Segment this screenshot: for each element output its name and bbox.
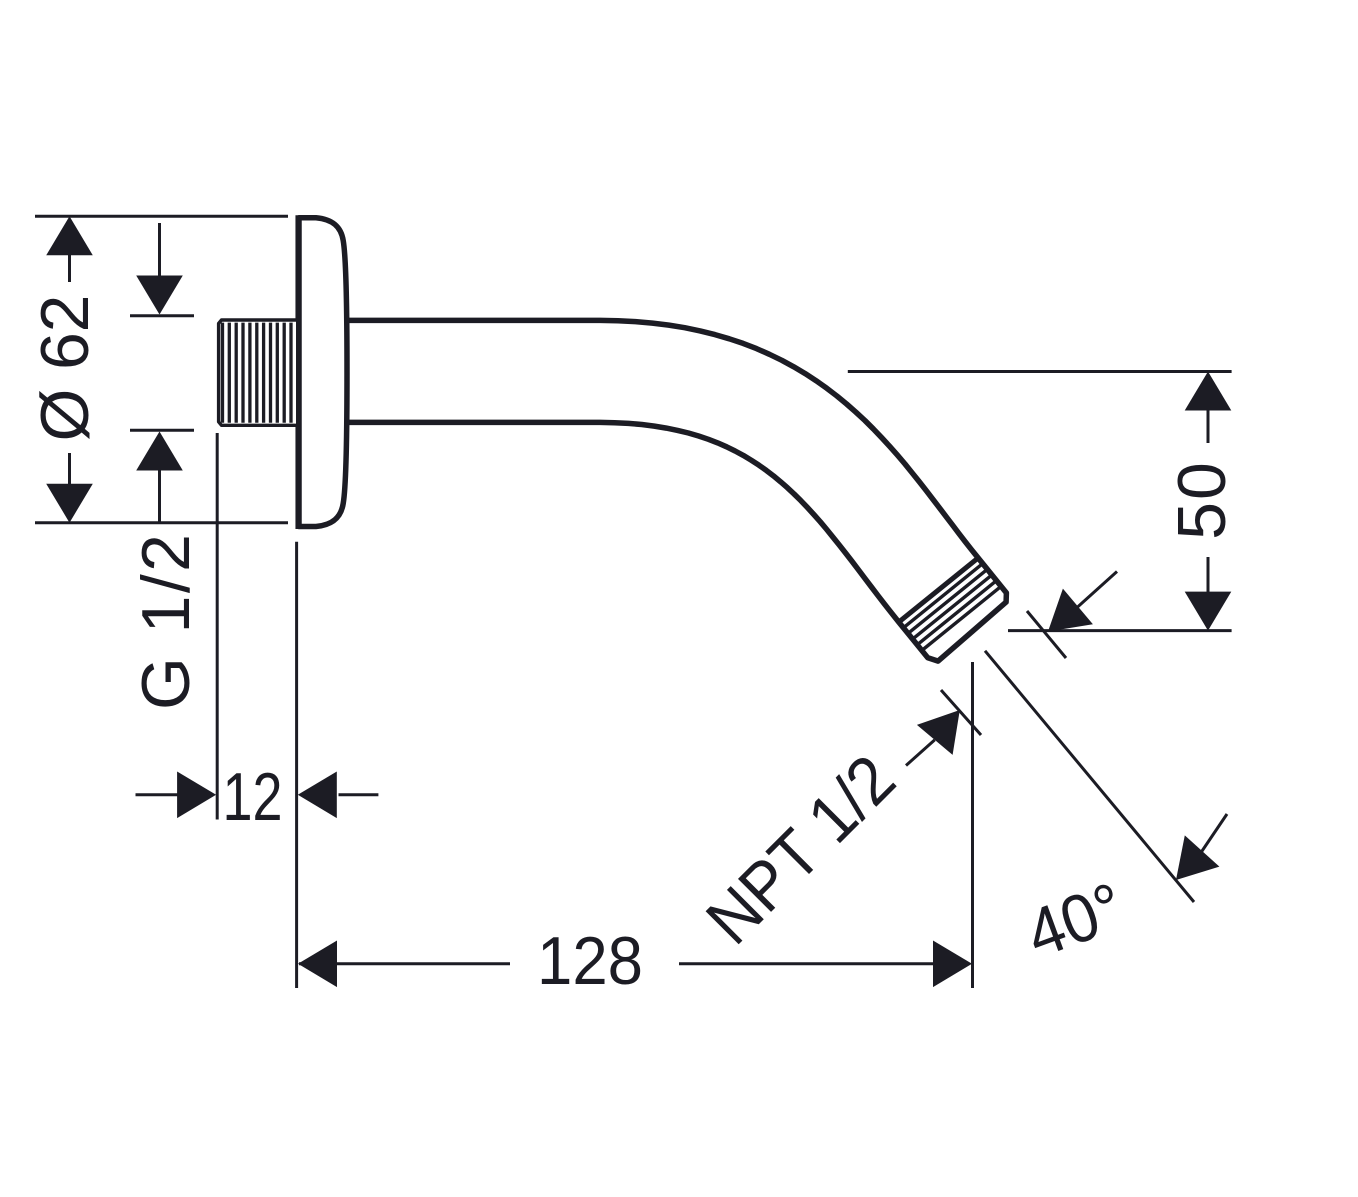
dim 12 right arrow — [339, 793, 379, 796]
outlet thread start edge — [899, 558, 978, 622]
svg-text:40°: 40° — [1017, 868, 1134, 973]
wall flange left face line — [295, 215, 301, 529]
NPT leader arrow — [906, 740, 935, 766]
dim 50 top extension line — [848, 370, 1232, 373]
dim Ø62 lower arrow — [46, 484, 93, 523]
outlet face tick mark — [1027, 611, 1066, 658]
svg-text:12: 12 — [223, 759, 283, 835]
dim 128 line right segment — [679, 962, 935, 965]
dim Ø62 upper arrow — [46, 216, 93, 255]
outlet face leader arrow — [1048, 589, 1093, 632]
dim Ø62 bottom extension line — [35, 521, 288, 524]
svg-text:50: 50 — [1164, 460, 1240, 540]
dim 128 left arrow — [298, 941, 337, 988]
wall flange escutcheon — [299, 218, 347, 527]
svg-text:NPT 1/2: NPT 1/2 — [692, 741, 910, 959]
thread dim upper pointer line — [130, 314, 194, 317]
extension line from flange face — [295, 542, 298, 988]
dim 128 line left segment — [299, 962, 510, 965]
dim Ø62 top extension line — [35, 215, 288, 218]
dim 12 left arrow — [136, 793, 178, 796]
outlet axis extension line — [985, 651, 1194, 902]
thread dim upper arrow — [136, 276, 183, 315]
dim 50 upper arrow — [1185, 372, 1232, 411]
svg-text:128: 128 — [537, 923, 643, 999]
extension line from thread face — [216, 433, 219, 820]
thread dim lower arrow — [136, 432, 183, 471]
dim 50 bottom extension line — [1008, 629, 1232, 632]
outlet thread hatch lines — [903, 564, 1001, 651]
svg-text:Ø 62: Ø 62 — [27, 295, 103, 442]
angle arc arrow — [1176, 835, 1219, 880]
svg-text:G 1/2: G 1/2 — [128, 534, 204, 710]
wall thread body — [219, 320, 296, 425]
vertical reference line — [971, 662, 974, 988]
NPT tick mark on extension line — [941, 690, 981, 735]
dim 50 lower arrow — [1185, 592, 1232, 631]
dim 128 right arrow — [933, 941, 972, 988]
wall thread hatch lines — [223, 323, 292, 423]
shower arm body outline — [345, 320, 1006, 661]
thread dim lower pointer line — [130, 429, 194, 432]
